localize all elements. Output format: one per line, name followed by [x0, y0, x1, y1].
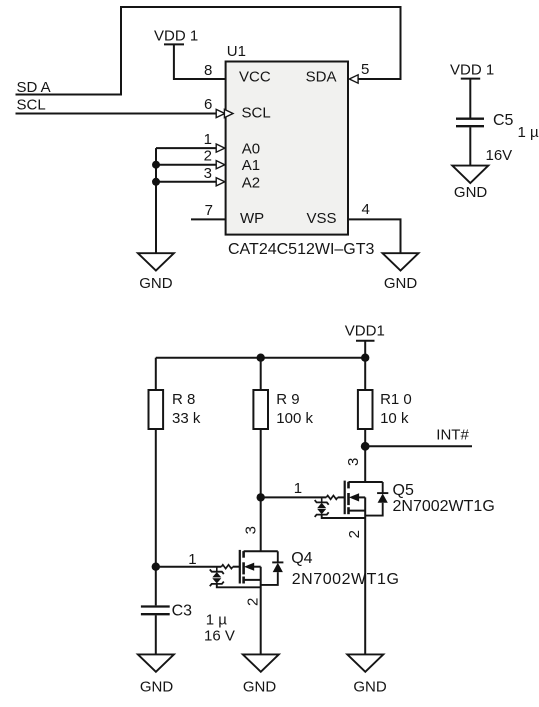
wire SCL net to pin 6	[16, 113, 217, 115]
wire R8 column down to C3 (Q4 gate tap)	[155, 429, 157, 605]
svg-text:GND: GND	[384, 275, 418, 292]
svg-text:2: 2	[346, 530, 363, 538]
svg-text:C5: C5	[493, 112, 514, 129]
wire pin 2 (A1)	[156, 164, 216, 166]
svg-text:8: 8	[204, 62, 212, 79]
resistor R9 body	[253, 390, 268, 429]
Q5 body diode	[382, 482, 384, 493]
svg-text:U1: U1	[227, 43, 246, 60]
pin 2 arrowhead	[216, 161, 225, 169]
ground GND below address pins	[138, 253, 174, 270]
svg-text:R 8: R 8	[172, 391, 195, 408]
svg-text:GND: GND	[454, 184, 488, 201]
svg-text:A1: A1	[242, 157, 260, 174]
svg-text:2: 2	[245, 598, 262, 606]
svg-text:10 k: 10 k	[380, 410, 409, 427]
svg-text:1 µ: 1 µ	[206, 611, 228, 628]
junction dot Q5 gate tap	[257, 493, 265, 501]
svg-text:16 V: 16 V	[204, 627, 235, 644]
svg-text:4: 4	[362, 201, 370, 218]
wire address pins column to ground	[155, 148, 157, 253]
junction dot rail at R10	[361, 354, 369, 362]
svg-text:GND: GND	[140, 679, 174, 696]
svg-text:3: 3	[204, 165, 212, 182]
wire C3 to ground	[155, 615, 157, 654]
svg-text:2: 2	[204, 148, 212, 165]
junction dot Q4 gate tap	[152, 563, 160, 571]
svg-text:7: 7	[205, 202, 213, 219]
Q5 gate-source ESD zener pair	[321, 497, 323, 502]
svg-text:VSS: VSS	[306, 210, 336, 227]
junction dot A1	[152, 161, 160, 169]
svg-text:INT#: INT#	[436, 426, 469, 443]
svg-text:CAT24C512WI–GT3: CAT24C512WI–GT3	[228, 241, 375, 258]
wire pin 7 (WP)	[191, 218, 226, 220]
pin 5 arrowhead (SDA, into chip)	[349, 75, 358, 83]
svg-text:A0: A0	[242, 141, 260, 158]
wire R10 column down to Q5 drain	[364, 429, 366, 482]
svg-text:1 µ: 1 µ	[518, 124, 539, 141]
resistor R8 body	[149, 390, 164, 429]
pin 1 arrowhead	[216, 144, 225, 152]
wire VDD1 rail	[156, 357, 365, 359]
svg-text:GND: GND	[243, 678, 277, 695]
pin 6 arrowheads (double)	[216, 109, 225, 117]
junction dot rail at R9	[257, 354, 265, 362]
svg-text:SCL: SCL	[242, 105, 271, 122]
svg-text:33 k: 33 k	[172, 410, 201, 427]
ground GND at pin 4	[383, 253, 419, 270]
svg-text:Q4: Q4	[291, 550, 312, 567]
capacitor C3	[141, 605, 170, 607]
wire VDD 1 to pin 8	[174, 44, 226, 79]
wire Q4 gate from tap	[156, 566, 222, 568]
svg-text:1: 1	[188, 551, 196, 568]
wire pin 3 (A2)	[156, 181, 216, 183]
ground GND (left column)	[138, 654, 174, 671]
wire rail to R9	[260, 358, 262, 390]
Q5 gate series squiggle	[326, 496, 337, 500]
ground GND (C5)	[452, 166, 488, 183]
svg-text:R 9: R 9	[276, 391, 299, 408]
Q4 gate series squiggle	[221, 565, 232, 569]
transistor Q4 body	[239, 550, 241, 584]
svg-text:R1 0: R1 0	[380, 391, 412, 408]
wire Q5 source to ground	[364, 497, 366, 654]
wire VDD 1 to C5	[469, 79, 471, 118]
svg-text:5: 5	[361, 61, 369, 78]
svg-text:VDD 1: VDD 1	[450, 61, 494, 78]
svg-text:2N7002WT1G: 2N7002WT1G	[393, 498, 495, 515]
Q4 body diode	[277, 551, 279, 562]
svg-text:VCC: VCC	[239, 69, 271, 86]
svg-text:3: 3	[243, 526, 260, 534]
svg-text:1: 1	[294, 480, 302, 497]
wire Q4 source to ground	[260, 567, 262, 655]
svg-text:100 k: 100 k	[276, 410, 313, 427]
svg-text:2N7002WT1G: 2N7002WT1G	[292, 571, 400, 588]
svg-text:GND: GND	[139, 275, 173, 292]
svg-text:6: 6	[204, 96, 212, 113]
wire Q5 gate from tap	[261, 496, 327, 498]
IC U1 body (CAT24C512WI-GT3)	[226, 62, 348, 235]
junction dot INT# tap	[361, 442, 370, 451]
capacitor C5	[456, 118, 484, 120]
svg-text:VDD1: VDD1	[345, 323, 385, 340]
svg-text:1: 1	[204, 131, 212, 148]
wire R9 column down to Q4 drain	[260, 429, 262, 552]
svg-text:GND: GND	[353, 678, 387, 695]
svg-text:SD A: SD A	[17, 79, 51, 96]
svg-text:WP: WP	[240, 210, 264, 227]
svg-text:SDA: SDA	[306, 69, 337, 86]
resistor R10 body	[358, 390, 373, 429]
ground GND (right column)	[347, 654, 383, 671]
wire pin 4 (VSS) to ground	[348, 219, 401, 253]
svg-text:3: 3	[345, 458, 362, 466]
svg-text:SCL: SCL	[17, 97, 46, 114]
svg-text:C3: C3	[172, 602, 193, 619]
Q4 gate-source ESD zener pair	[216, 567, 218, 572]
svg-text:VDD 1: VDD 1	[154, 27, 198, 44]
svg-text:16V: 16V	[486, 147, 513, 164]
wire INT# net	[365, 445, 472, 447]
wire rail to R8	[155, 358, 157, 390]
pin 3 arrowhead	[216, 178, 225, 186]
ground GND (middle column)	[243, 654, 279, 671]
wire pin 1 (A0)	[156, 147, 216, 149]
transistor Q5 body	[344, 481, 346, 515]
wire rail to R10	[364, 358, 366, 390]
wire C5 to ground	[469, 127, 471, 165]
wire SDA net: label, up and over to pin 5	[16, 7, 401, 95]
junction dot A2	[152, 178, 160, 186]
svg-text:Q5: Q5	[393, 482, 414, 499]
svg-text:A2: A2	[242, 174, 260, 191]
